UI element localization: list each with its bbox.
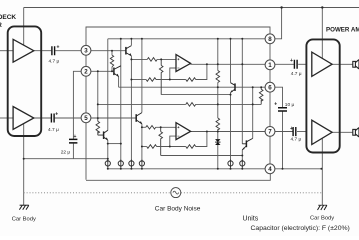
wire Q6 collector x=229.5 [230,39,232,83]
wire Q2 emitter to pin6 line [118,76,120,87]
wire deck input 2 [0,117,13,119]
op-amp U2 [176,123,191,140]
speaker SP2 [353,128,359,138]
wire pin column left x=86 [85,55,87,180]
svg-text:2: 2 [84,69,88,76]
svg-text:4.7 μ: 4.7 μ [291,137,302,143]
wire pin7 line op-amp2 output [190,131,265,133]
wire bottom return y=179.8 to pin4 [86,174,270,181]
wire pin2 left stub to C3 [73,71,81,139]
svg-text:4.7 μ: 4.7 μ [291,71,302,77]
svg-text:10 μ: 10 μ [285,102,295,108]
wire deck input 1 [0,50,13,52]
transistor Q2 [114,66,121,77]
wire C3 bottom to ground line [72,144,74,159]
wire ch1 feedback drop x=206.9 [196,64,207,79]
wire C4 to power amp [298,63,306,65]
current source I5 [228,159,233,167]
capacitor C1 4.7u [49,45,60,65]
wire rail left edge x=107.8 down to Q5 collector [107,39,109,131]
wire ground link y=158.7 [24,158,108,160]
wire pin1 line op-amp1 output [190,63,265,65]
op-amp power triangle 1 [312,52,332,76]
wire ch1 feedback to Q1 emitter line [131,79,146,81]
wire Q6 emitter chain x=229.5 [230,93,232,161]
resistor R5 x=217.8 [216,71,220,83]
current source I4 [139,159,144,167]
capacitor C6 10u [274,102,294,112]
wire ch2 feedback to Q4 emitter line [142,146,147,148]
resistor ch1 shunt x=161.2 [159,59,163,94]
wire pin3 line to Q1 base [91,50,126,52]
transistor Q6 [230,83,235,93]
svg-text:POWER AMP: POWER AMP [326,26,359,33]
svg-text:4.7 μ: 4.7 μ [49,58,60,64]
wire junction dots [23,6,324,170]
op-amp deck triangle 2 [13,107,34,130]
wire ch2 feedback drop x=206.9 [196,132,207,147]
wire ch1 plus line right into op-amp [157,58,176,60]
wire diode bottom to rail [217,145,219,169]
dashed car body noise line [24,192,322,194]
svg-text:7: 7 [268,129,272,136]
wire pin7 to C5 [275,131,293,133]
wire C2 to pin5 [55,117,81,119]
svg-text:+: + [57,45,60,51]
wire pin1 to C4 [275,63,294,65]
wire pin3 riser and pin8 top link y=27 [86,27,270,45]
resistor R1 between pin3 and pin2 lines [110,55,113,67]
current source I3 [129,159,134,167]
pin 1 [265,60,275,70]
wire ch2 mid bias y=155.5 [161,155,243,157]
wire ch2 minus input riser [170,136,176,146]
svg-text:1: 1 [268,62,272,69]
svg-text:+: + [74,134,77,140]
power amp block rounded rect [306,39,339,152]
capacitor C3 22u [61,134,78,155]
diode D1 [215,139,220,145]
wire deck out2 to C2 [34,117,51,119]
wire ch2 plus line right into op-amp [156,126,176,128]
svg-text:+: + [55,111,58,117]
wire pin2-pin5 connector x=97.8 [97,71,99,118]
wire C5 to power amp [297,131,306,133]
wire Q4 emitter chain x=141.9 [141,124,143,161]
wire Q7 emitter to current source 6 [241,150,243,161]
wire pin6 to C6 drop x=282.5 [275,87,283,169]
pin 7 [265,126,275,136]
op-amp power triangle 2 [312,120,332,144]
transistor Q5 [98,130,108,140]
current source I2 [118,159,123,167]
transistor Q1 [126,46,132,56]
wire current source 4 to rail [141,166,143,169]
capacitor C4 4.7u [290,58,302,77]
wire pin2 line to Q2 base [91,70,114,72]
resistor ch1 feedback [186,78,196,82]
wire power amp supply/ground drop x=322.3 [321,8,323,206]
resistor ch2 plus [146,126,156,130]
svg-text:22 μ: 22 μ [61,149,71,155]
wire current source 5 to rail [230,166,232,169]
resistor R6 x=217.8 [216,118,220,130]
wire Q1 emitter chain x=131.4 [130,56,132,161]
svg-text:+: + [274,102,277,108]
capacitor C2 4.7u [48,111,59,133]
transistor Q7 [242,138,253,150]
resistor mid bias y=104.4 [186,103,196,107]
svg-text:8: 8 [268,36,272,43]
svg-text:4.7 μ: 4.7 μ [48,127,59,133]
pin 6 [265,82,275,92]
wire deck ground drop x=23.7 [23,124,25,205]
wire current source 2 to rail [120,166,122,169]
svg-text:Car Body Noise: Car Body Noise [155,206,201,213]
svg-text:4: 4 [268,166,272,173]
wire ch2 feedback mid [157,146,186,148]
wire emitter stub y=143.6 [108,143,121,145]
current source I1 [105,159,110,167]
svg-text:5: 5 [84,115,88,122]
wire current source 3 to rail [130,166,132,169]
wire pin4 right to ground [275,168,322,170]
wire pin6 line y=87.2 [119,86,266,88]
svg-text:Car Body: Car Body [310,216,334,222]
wire x=242.3 rail to Q7 base [241,39,243,144]
AC source car body noise [171,188,181,198]
wire Q5 emitter chain x=107.8 [107,140,109,161]
wire pin5 line to Q4 base [91,117,136,119]
pin 2 [81,66,91,76]
svg-text:Units: Units [243,216,259,223]
wire current source 1 to rail [107,166,109,169]
resistor ch1 feedback left [146,78,156,82]
wire ch2 plus line left [142,126,146,128]
wire ch1 plus line left [131,58,147,60]
wire R5 bottom down [217,83,219,119]
resistor drop x=261.2 below pin6 line [259,87,263,104]
svg-text:Car Body: Car Body [12,217,36,223]
svg-text:Capacitor (electrolytic): F (±: Capacitor (electrolytic): F (±20%) [251,225,350,232]
wire ch1 minus input riser x=169.8 [170,68,176,80]
wire y=94.9 to Q6 emitter [161,94,230,96]
wire supply to pin8 right x=281.6 [275,8,282,39]
wire pin6 shunt drop x=252.7 [252,87,254,138]
wire C1 to pin3 [55,50,81,52]
svg-text:3: 3 [84,48,88,55]
wire top supply rail y=7.5 [24,7,359,9]
wire mid bias line y=104.4 [98,103,261,105]
wire amp2 out to speaker2 [332,131,353,133]
ground left car body [19,205,28,210]
op-amp deck triangle 1 [13,39,34,62]
capacitor C5 4.7u [290,126,302,143]
resistor Q5 base x=97.8 [96,118,100,135]
wire deck out1 to C1 [34,50,52,52]
svg-text:DECK: DECK [0,14,16,21]
resistor ch2 feedback left [147,145,157,149]
resistor ch2 feedback [186,145,196,149]
resistor ch2 shunt x=160.7 [159,127,163,155]
deck block rounded rect [8,26,42,136]
speaker SP1 [353,60,359,70]
wire deck supply drop x=23.7 [23,8,25,45]
current source I6 [240,159,245,167]
pin 5 [81,113,91,123]
IC internal top rail y=38.8 [108,38,265,40]
svg-text:6: 6 [268,85,272,92]
wire Q4 collector x=141.9 [141,39,143,113]
wire current source 6 to rail [241,166,243,169]
wire Q1 collector x=131.4 [130,39,132,46]
pin 8 [265,34,275,44]
resistor ch1 plus [147,58,157,62]
svg-text:+: + [290,126,293,132]
pin 3 [81,45,91,55]
ground right car body [318,205,327,210]
wire Q2 collector x=118.6 [120,39,122,161]
svg-text:+: + [290,58,293,64]
transistor Q4 [136,113,142,124]
pin 4 [265,164,275,174]
wire R6 bottom to diode [217,129,219,139]
op-amp U1 [176,55,191,72]
wire current source rail y=168.8 [108,168,265,170]
resistor R1 stubs x=112 [111,51,113,72]
wire amp1 out to speaker1 [332,63,353,65]
wire R5 chain x=217.8 rail to pin1 line [217,39,219,71]
wire ch1 feedback mid [156,79,186,81]
wire pin column right x=270 [269,44,271,164]
